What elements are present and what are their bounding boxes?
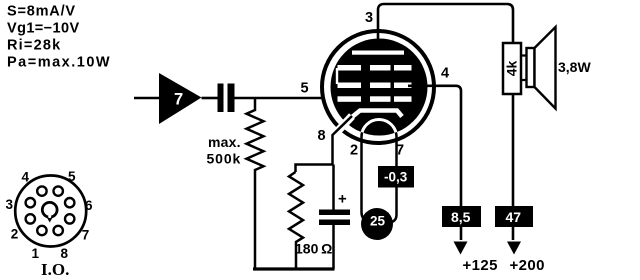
socket pin holes [26,186,75,235]
grid row C dashes (control grid, pin 5) [338,96,412,102]
svg-text:500k: 500k [207,151,242,167]
output transformer 4k primary [503,43,521,94]
cathode lead white channel through disc edge [335,116,352,134]
socket center key [45,215,54,223]
cathode resistor 180ohm [289,172,303,269]
svg-text:Ri=28k: Ri=28k [7,38,61,54]
measurement box 8,5 on pin4 lead [442,206,481,227]
ground rail [253,267,335,270]
tube electrode disc (black) [331,39,428,136]
speaker connection stubs [521,56,527,81]
grid resistor R1 max.500k [247,98,264,269]
svg-text:4k: 4k [504,61,520,77]
svg-text:2: 2 [11,226,19,241]
transformer lower lead [512,94,515,240]
tube V1 envelope circle [322,31,434,143]
svg-text:8: 8 [318,128,326,144]
anode wire pin 3 to transformer [378,4,513,45]
svg-text:47: 47 [506,209,522,225]
measurement circle 25 (heater) [361,208,393,240]
svg-text:7: 7 [396,143,404,159]
svg-text:8,5: 8,5 [451,209,471,225]
grid row A dashes [338,65,412,71]
svg-text:3: 3 [6,197,14,212]
socket diagram outer circle [15,176,86,247]
screen grid wire pin 4 [408,86,461,240]
cathode junction wire to capacitor and resistor [296,165,333,173]
svg-text:8: 8 [61,246,69,261]
coupling capacitor C1 [218,84,224,113]
svg-text:6: 6 [85,198,93,213]
svg-text:Vg1=−10V: Vg1=−10V [7,21,80,37]
svg-text:+: + [338,191,347,208]
heater arch + pin2/pin7 leads [362,120,397,223]
svg-text:25: 25 [370,214,386,229]
svg-text:3: 3 [365,10,373,26]
amplifier triangle stage 7 [159,73,202,124]
speaker horn [535,27,556,109]
electrolytic capacitor C2 plates [319,210,350,216]
wire triangle to capacitor [202,97,218,100]
supply arrow +200 [507,242,521,255]
wire capacitor to grid pin 5 [235,97,341,100]
speaker driver box [527,48,535,87]
svg-text:4: 4 [441,66,449,82]
supply arrow +125 [454,242,468,255]
anode slot [352,51,404,55]
svg-text:+200: +200 [510,257,545,274]
measurement box -0,3 on pin7 lead [378,166,414,188]
cathode bar [352,111,402,118]
grid support slit left [336,68,338,84]
svg-text:2: 2 [350,143,358,159]
grid row B dashes (screen grid, pin 4) [338,83,412,89]
svg-text:5: 5 [301,81,309,97]
svg-text:S=8mA/V: S=8mA/V [7,4,76,20]
svg-text:3,8W: 3,8W [558,59,591,75]
measurement box 47 [495,206,533,227]
svg-text:7: 7 [82,227,90,242]
svg-text:180 Ω: 180 Ω [295,241,332,257]
svg-text:5: 5 [68,169,76,184]
cathode lead wire pin 8 [333,116,353,165]
svg-text:7: 7 [174,91,183,109]
svg-text:4: 4 [22,170,30,185]
svg-text:Pa=max.10W: Pa=max.10W [7,55,111,71]
svg-text:1: 1 [32,246,40,261]
input wire [134,97,159,100]
capacitor lower lead [332,225,335,269]
svg-text:+125: +125 [463,257,498,274]
svg-text:max.: max. [208,134,241,150]
svg-text:I.O.: I.O. [41,260,69,279]
svg-text:-0,3: -0,3 [384,170,408,185]
